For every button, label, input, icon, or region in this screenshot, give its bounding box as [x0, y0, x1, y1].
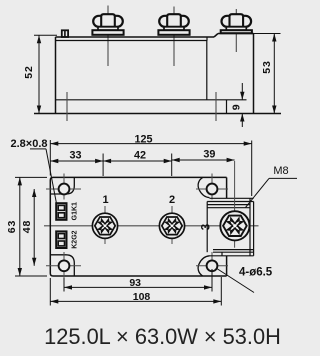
svg-text:G1K1: G1K1: [71, 202, 78, 220]
svg-text:53: 53: [261, 60, 273, 73]
gate block K2G2: [56, 231, 66, 248]
mounting hole top-right: [196, 174, 228, 200]
caption size text: [44, 324, 281, 349]
dimension 125 text: [134, 134, 152, 146]
terminal label 3: [201, 224, 213, 230]
mounting hole top-left: [46, 174, 81, 200]
svg-text:2.8×0.8: 2.8×0.8: [10, 138, 47, 150]
section edge between body and raised block: [206, 41, 208, 100]
dimension 108 text: [133, 291, 151, 303]
dimension 125 extension lines: [50, 140, 251, 196]
terminal 2 centerline (plan): [171, 206, 173, 244]
top-left corner notch: [50, 177, 74, 194]
terminal 3 bracket block: [207, 198, 253, 256]
svg-text:42: 42: [134, 150, 146, 162]
dimension 108 line: [50, 299, 221, 303]
terminal 3 side view (nut+washer): [221, 14, 252, 33]
dimension 52 text: [23, 65, 35, 78]
dimension 52 extension line: [34, 34, 57, 36]
module bottom line (side view): [34, 113, 281, 115]
dimension 39 text: [203, 149, 215, 161]
gate block G1K1: [56, 203, 66, 220]
svg-text:108: 108: [133, 291, 151, 303]
dimension 33/42/39 extension lines: [103, 154, 172, 177]
terminal 2 side view (nut+washer): [158, 14, 189, 35]
module body outline (side view): [56, 34, 254, 114]
label 4-diam6.5: [239, 267, 273, 279]
main horizontal centerline (plan): [44, 225, 259, 227]
svg-text:K2G2: K2G2: [71, 230, 78, 248]
dimension 93 line: [64, 285, 212, 289]
svg-text:125.0L × 63.0W × 53.0H: 125.0L × 63.0W × 53.0H: [44, 324, 281, 349]
dimension 33 line: [50, 159, 103, 163]
leader line 2.8x0.8: [30, 149, 57, 204]
dimension 48 text: [21, 220, 33, 233]
svg-text:2: 2: [169, 194, 175, 206]
plan body outline: [50, 177, 226, 276]
dimension 63 extension lines: [15, 177, 47, 276]
lid seam line (side view): [56, 37, 208, 41]
dimension 52 line: [37, 35, 41, 113]
label M8: [273, 165, 288, 177]
dimension 93 text: [129, 277, 141, 289]
dimension 53 extension line: [254, 33, 281, 35]
dimension 33 text: [69, 150, 81, 162]
svg-text:3: 3: [201, 224, 213, 230]
dimension 9 lines: [240, 83, 244, 127]
dimension 125 line: [50, 141, 251, 145]
terminal label 2: [169, 194, 175, 206]
svg-text:48: 48: [21, 220, 33, 233]
svg-text:33: 33: [69, 150, 81, 162]
baseplate top line (side view): [56, 99, 247, 101]
dimension 53 line: [272, 34, 276, 114]
leader line M8: [246, 178, 298, 207]
dimension 108 extension lines: [50, 277, 221, 306]
terminal 1 (plan): [92, 213, 117, 238]
mounting hole centerline right (side view): [215, 92, 217, 121]
svg-text:M8: M8: [273, 165, 288, 177]
dimension 93 extension lines: [64, 269, 212, 292]
dimension 63 line: [18, 177, 22, 276]
terminal 3 (plan): [220, 211, 249, 240]
terminal 2 centerline (side view): [173, 7, 175, 67]
svg-text:125: 125: [134, 134, 152, 146]
leader line 4-diam6.5: [216, 268, 254, 293]
svg-text:1: 1: [102, 194, 108, 206]
svg-text:39: 39: [203, 149, 215, 161]
gate pins tab (side view): [62, 30, 68, 37]
terminal 1 centerline (plan): [104, 206, 106, 244]
dimension 39 line: [172, 158, 235, 162]
label G1K1: [71, 202, 78, 220]
dimension 42 line: [103, 159, 172, 163]
mounting hole bottom-right: [196, 252, 228, 291]
svg-text:9: 9: [231, 104, 243, 110]
top-right corner notch: [198, 177, 209, 197]
svg-text:63: 63: [6, 220, 18, 233]
dimension 53 text: [261, 60, 273, 73]
label 2.8x0.8: [10, 138, 47, 150]
dimension 42 text: [134, 150, 146, 162]
terminal 3 centerline (plan): [234, 161, 236, 248]
mounting hole centerline left (side view): [66, 92, 68, 121]
dimension 63 text: [6, 220, 18, 233]
terminal 1 centerline (side view): [107, 6, 109, 67]
terminal 3 centerline (side view): [235, 9, 237, 52]
bottom-right corner notch: [198, 256, 209, 276]
svg-text:4-ø6.5: 4-ø6.5: [239, 267, 273, 279]
svg-text:52: 52: [23, 65, 35, 78]
dimension 9 text: [231, 104, 243, 110]
label K2G2: [71, 230, 78, 248]
baseplate step edge (side view): [226, 100, 228, 114]
dimension 48 line: [32, 189, 36, 266]
svg-text:93: 93: [129, 277, 141, 289]
terminal 1 side view (nut+washer): [92, 14, 123, 35]
terminal label 1: [102, 194, 108, 206]
terminal 2 (plan): [159, 213, 184, 238]
bottom-left corner notch: [50, 255, 74, 276]
mounting hole bottom-left: [46, 252, 81, 291]
